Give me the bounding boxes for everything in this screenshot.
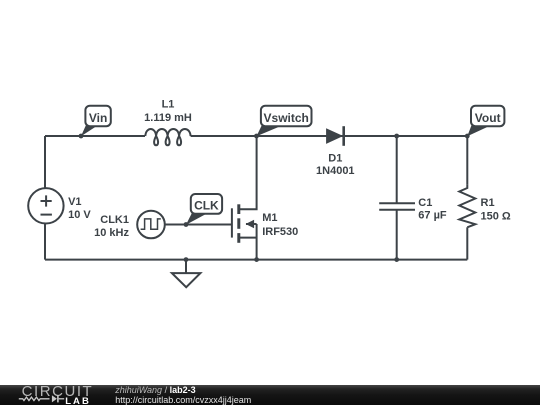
svg-text:LAB: LAB xyxy=(65,396,91,405)
svg-text:V1: V1 xyxy=(68,196,81,208)
svg-text:Vout: Vout xyxy=(475,111,501,125)
svg-text:D1: D1 xyxy=(328,153,342,165)
svg-text:10 kHz: 10 kHz xyxy=(94,227,129,239)
svg-text:CLK1: CLK1 xyxy=(100,214,129,226)
svg-text:L1: L1 xyxy=(162,99,175,111)
svg-text:1.119 mH: 1.119 mH xyxy=(144,112,192,124)
svg-text:C1: C1 xyxy=(418,197,432,209)
svg-text:10 V: 10 V xyxy=(68,209,91,221)
svg-text:150 Ω: 150 Ω xyxy=(481,210,511,222)
svg-text:R1: R1 xyxy=(481,197,495,209)
svg-text:IRF530: IRF530 xyxy=(262,226,298,238)
svg-text:1N4001: 1N4001 xyxy=(316,165,355,177)
svg-text:CLK: CLK xyxy=(194,199,219,213)
svg-text:M1: M1 xyxy=(262,212,277,224)
svg-text:Vswitch: Vswitch xyxy=(264,111,309,125)
svg-text:Vin: Vin xyxy=(89,111,107,125)
svg-text:67 µF: 67 µF xyxy=(418,209,447,221)
